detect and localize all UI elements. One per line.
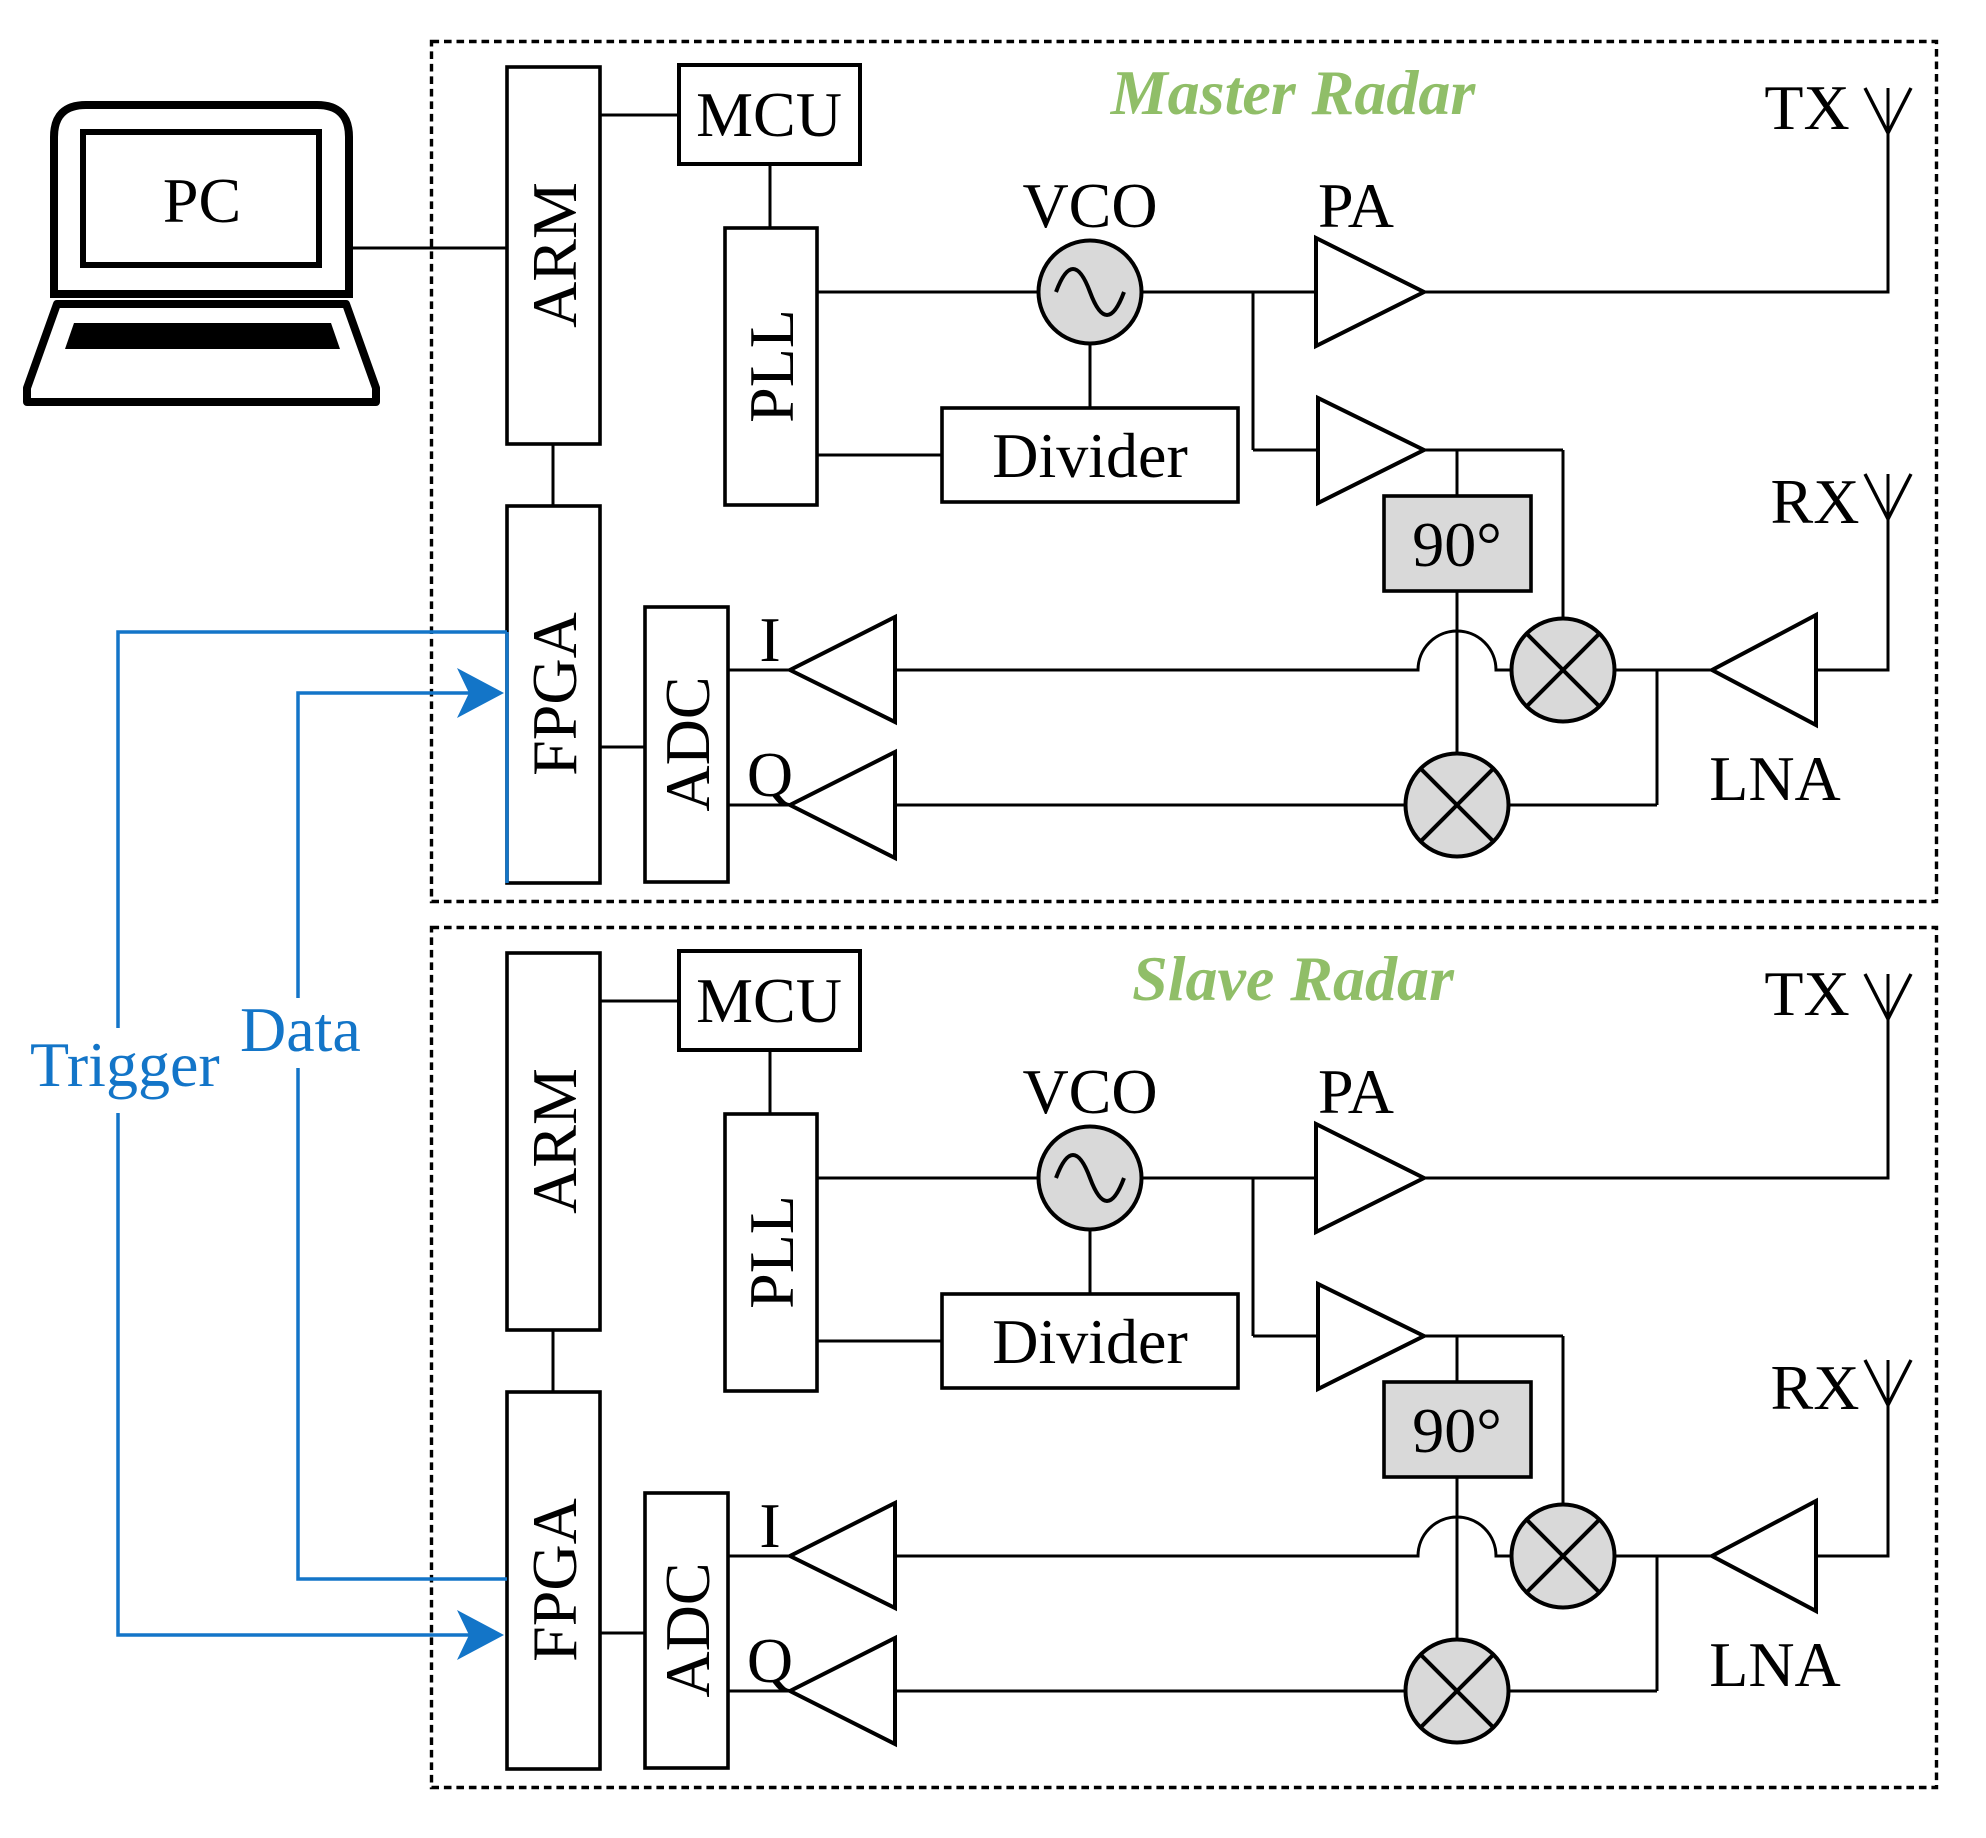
wire Master RX antenna to LNA xyxy=(1816,474,1888,670)
wire Slave PLL to VCO xyxy=(817,1177,1039,1180)
Slave Q-channel amplifier triangle xyxy=(790,1638,895,1744)
svg-text:PLL: PLL xyxy=(736,309,807,423)
svg-text:I: I xyxy=(759,1490,780,1561)
Slave Divider box xyxy=(942,1294,1238,1388)
svg-text:Divider: Divider xyxy=(992,1306,1188,1377)
wire Master PLL to Divider xyxy=(817,454,942,457)
svg-text:I: I xyxy=(759,604,780,675)
Master PA amplifier triangle xyxy=(1316,238,1424,346)
Slave 90 degree phase shifter box xyxy=(1384,1382,1531,1477)
wire Slave ARM to MCU xyxy=(600,1000,679,1003)
wire Master ARM to MCU xyxy=(600,114,679,117)
Master VCO oscillator circle xyxy=(1039,241,1142,344)
Slave mixer I (upper mixer) xyxy=(1512,1505,1615,1608)
svg-text:90°: 90° xyxy=(1412,509,1502,580)
wire Slave I amp to mixer I with hop over xyxy=(895,1517,1511,1556)
wire Master VCO to PA xyxy=(1142,291,1316,294)
Master Q-channel amplifier triangle xyxy=(790,752,895,858)
Slave MCU box xyxy=(679,951,860,1050)
svg-text:Master Radar: Master Radar xyxy=(1110,57,1477,128)
svg-text:LNA: LNA xyxy=(1709,1629,1841,1700)
Slave RX antenna xyxy=(1865,1360,1911,1405)
wire Master into mixer Q xyxy=(1510,804,1657,807)
Slave VCO oscillator circle xyxy=(1039,1127,1142,1230)
svg-text:Slave Radar: Slave Radar xyxy=(1132,943,1455,1014)
wire Slave into buffer amp xyxy=(1253,1335,1318,1338)
wire Slave ADC to I amp xyxy=(728,1555,790,1558)
wire Master Q amp to mixer Q xyxy=(895,804,1406,807)
wire Slave FPGA to ADC xyxy=(600,1632,645,1635)
wire Master junction down to buffer amp xyxy=(1252,292,1255,450)
Slave FPGA box xyxy=(507,1392,600,1769)
wire Master PA to TX antenna xyxy=(1424,88,1888,292)
wire Slave MCU to PLL xyxy=(769,1050,772,1114)
wire PC to Master ARM xyxy=(349,247,507,250)
Master MCU box xyxy=(679,65,860,164)
Trigger blue segment along Master FPGA left edge xyxy=(505,632,509,883)
wire Slave ADC to Q amp xyxy=(728,1690,790,1693)
wire Slave junction down to mixer Q xyxy=(1656,1556,1659,1691)
Data arrowhead at Master FPGA xyxy=(457,668,504,718)
svg-text:ADC: ADC xyxy=(652,1562,723,1697)
wire Master MCU to PLL xyxy=(769,164,772,228)
Master I-channel amplifier triangle xyxy=(790,617,895,722)
wire Master junction down to mixer Q xyxy=(1656,670,1659,805)
PC laptop icon xyxy=(27,105,376,402)
Slave PLL box xyxy=(725,1114,817,1391)
svg-text:Q: Q xyxy=(747,1625,793,1696)
svg-text:Trigger: Trigger xyxy=(30,1029,220,1100)
Master PLL box xyxy=(725,228,817,505)
Master 90 degree phase shifter box xyxy=(1384,496,1531,591)
wire Slave LO to mixer I xyxy=(1562,1336,1565,1504)
Master TX antenna xyxy=(1865,88,1911,133)
wire Master ADC to I amp xyxy=(728,669,790,672)
svg-text:TX: TX xyxy=(1764,72,1849,143)
wire Slave LNA to mixer I xyxy=(1615,1555,1712,1558)
svg-text:ARM: ARM xyxy=(519,182,590,328)
wire Slave into 90 deg shifter xyxy=(1456,1336,1459,1382)
wire Slave buffer amp output xyxy=(1424,1335,1563,1338)
wire Master ADC to Q amp xyxy=(728,804,790,807)
svg-text:LNA: LNA xyxy=(1709,743,1841,814)
svg-text:PA: PA xyxy=(1318,1056,1394,1127)
Slave buffer amplifier triangle xyxy=(1318,1284,1424,1389)
Master RX antenna xyxy=(1865,474,1911,519)
svg-text:ARM: ARM xyxy=(519,1068,590,1214)
wire Slave VCO to Divider xyxy=(1089,1230,1092,1294)
svg-text:FPGA: FPGA xyxy=(519,1498,590,1662)
Master Divider box xyxy=(942,408,1238,502)
wire Master I amp to mixer I with hop over xyxy=(895,631,1511,670)
wire Slave RX antenna to LNA xyxy=(1816,1360,1888,1556)
wire Master LO to mixer I xyxy=(1562,450,1565,618)
wire Master VCO to Divider xyxy=(1089,344,1092,408)
Slave mixer Q (lower mixer) xyxy=(1406,1640,1509,1743)
wire Slave VCO to PA xyxy=(1142,1177,1316,1180)
Data line from Slave FPGA up to Master FPGA (blue) xyxy=(298,693,507,1579)
Master FPGA box xyxy=(507,506,600,883)
Master ADC box xyxy=(645,607,728,882)
Slave ARM box xyxy=(507,953,600,1330)
Master Radar dashed boundary box xyxy=(432,42,1937,902)
Master mixer I (upper mixer) xyxy=(1512,619,1615,722)
svg-text:TX: TX xyxy=(1764,958,1849,1029)
wire Slave junction down to buffer amp xyxy=(1252,1178,1255,1336)
wire Slave Q amp to mixer Q xyxy=(895,1690,1406,1693)
svg-text:VCO: VCO xyxy=(1022,1056,1157,1127)
svg-text:Divider: Divider xyxy=(992,420,1188,491)
svg-text:MCU: MCU xyxy=(696,79,842,150)
Master mixer Q (lower mixer) xyxy=(1406,754,1509,857)
wire Master buffer amp output xyxy=(1424,449,1563,452)
Slave LNA amplifier triangle xyxy=(1712,1501,1816,1611)
wire Master ARM to FPGA xyxy=(552,444,555,506)
Master buffer amplifier triangle xyxy=(1318,398,1424,503)
svg-text:90°: 90° xyxy=(1412,1395,1502,1466)
svg-text:RX: RX xyxy=(1771,466,1860,537)
wire Slave PA to TX antenna xyxy=(1424,974,1888,1178)
wire Master into 90 deg shifter xyxy=(1456,450,1459,496)
Master ARM box xyxy=(507,67,600,444)
PC keyboard strip xyxy=(65,323,340,349)
wire Slave PLL to Divider xyxy=(817,1340,942,1343)
wire Slave 90 deg to mixer Q xyxy=(1456,1477,1459,1639)
wire Slave ARM to FPGA xyxy=(552,1330,555,1392)
Slave ADC box xyxy=(645,1493,728,1768)
wire Master FPGA to ADC xyxy=(600,746,645,749)
svg-text:RX: RX xyxy=(1771,1352,1860,1423)
wire Slave into mixer Q xyxy=(1510,1690,1657,1693)
wire Master 90 deg to mixer Q xyxy=(1456,591,1459,753)
svg-text:Q: Q xyxy=(747,739,793,810)
svg-text:VCO: VCO xyxy=(1022,170,1157,241)
svg-text:Data: Data xyxy=(240,994,361,1065)
svg-text:ADC: ADC xyxy=(652,676,723,811)
Trigger line from Master FPGA down to Slave FPGA (blue) xyxy=(118,632,507,1635)
svg-text:PA: PA xyxy=(1318,170,1394,241)
svg-text:PC: PC xyxy=(163,165,241,236)
svg-text:MCU: MCU xyxy=(696,965,842,1036)
Slave Radar dashed boundary box xyxy=(432,928,1937,1788)
svg-text:PLL: PLL xyxy=(736,1195,807,1309)
wire Master LNA to mixer I xyxy=(1615,669,1712,672)
svg-text:FPGA: FPGA xyxy=(519,612,590,776)
Slave PA amplifier triangle xyxy=(1316,1124,1424,1232)
wire Master into buffer amp xyxy=(1253,449,1318,452)
Slave I-channel amplifier triangle xyxy=(790,1503,895,1608)
wire Master PLL to VCO xyxy=(817,291,1039,294)
Slave TX antenna xyxy=(1865,974,1911,1019)
Master LNA amplifier triangle xyxy=(1712,615,1816,725)
Trigger arrowhead at Slave FPGA xyxy=(457,1610,504,1660)
